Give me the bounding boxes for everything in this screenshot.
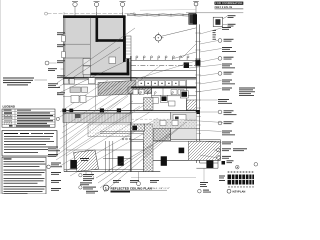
grid bubble 1 <box>72 2 78 16</box>
notes box <box>2 131 57 156</box>
thin lines left dense area <box>63 80 98 110</box>
black column bottom center <box>161 156 167 166</box>
svg-text:REFLECTED CEILING PLAN: REFLECTED CEILING PLAN <box>111 186 153 190</box>
crosshatch room mid <box>153 128 171 141</box>
small cabinets in mid rooms <box>133 90 184 95</box>
stipple ceiling region <box>88 124 131 137</box>
left label cluster y76 <box>57 75 65 78</box>
main horizontal wall below block <box>63 77 196 78</box>
circle right edge <box>254 163 258 167</box>
right wall double line <box>196 24 199 163</box>
r-label y130 <box>222 131 235 136</box>
notes paragraph 1 <box>4 161 46 167</box>
circle marker left lower <box>47 165 51 169</box>
black columns row <box>62 109 66 113</box>
r-label y141 <box>222 142 233 145</box>
upper-left block room fill <box>63 16 123 78</box>
door black box 1 <box>160 95 168 102</box>
r-label y72 circle <box>218 72 233 76</box>
svg-text:1: 1 <box>105 186 107 190</box>
right edge lower lines <box>131 160 218 177</box>
title block top-right <box>186 2 243 13</box>
r-label y80 <box>222 80 235 85</box>
circle right of legend <box>56 117 59 120</box>
r-label y99 <box>218 99 232 104</box>
legend table <box>2 109 55 127</box>
white box inside gray room <box>173 115 186 125</box>
glazing wave line top <box>127 10 196 17</box>
r-label y64 <box>222 64 235 69</box>
sheet border left edge <box>0 0 2 194</box>
black column bottom-mid <box>118 156 124 166</box>
left lower label cluster y180 <box>51 180 61 183</box>
keyplan black strip <box>228 175 255 185</box>
r-label y148 circle <box>217 148 247 152</box>
label cluster above keyplan <box>227 160 234 163</box>
dense hatch band right of core <box>128 87 152 94</box>
upper crosshatch block <box>144 98 154 111</box>
north circle above keyplan <box>236 165 240 169</box>
notes heading <box>4 158 12 159</box>
lower room bottom wall <box>91 73 130 76</box>
black square near keyplan top <box>222 161 226 165</box>
small white boxes mid-left <box>71 96 79 103</box>
dark bulkhead band <box>131 86 196 88</box>
dash line through rooms <box>131 118 196 120</box>
top dimension line <box>45 12 137 15</box>
r-label y39 circle <box>218 39 233 43</box>
crosshatch band elevator core <box>98 81 136 96</box>
bottom center label stack <box>80 174 98 193</box>
black column mid room <box>132 126 137 131</box>
title underline bar <box>111 191 131 193</box>
black box on right wall mid <box>195 60 200 66</box>
grid bubble 2 <box>94 2 100 16</box>
right wall upper <box>123 16 126 62</box>
svg-text:LEGEND: LEGEND <box>3 105 16 109</box>
small room details mid band <box>131 88 175 106</box>
svg-text:ONLY 2 ATL 05: ONLY 2 ATL 05 <box>215 6 233 9</box>
r-label y156 circle <box>217 156 231 160</box>
dim text stack right of wall <box>213 30 217 40</box>
window box on left wall <box>62 36 65 42</box>
leaders from left labels to plan <box>61 34 66 77</box>
window box on left wall 2 <box>62 52 65 58</box>
r-label y27 <box>222 27 231 30</box>
small boxes row upper left area <box>63 79 87 93</box>
left lower label cluster y163 <box>51 163 62 168</box>
r-label y57 circle <box>218 57 233 61</box>
vertical crosshatch band center <box>144 124 154 172</box>
left wall <box>63 16 65 78</box>
hatch block at wall corner <box>187 100 197 110</box>
lower room right wall <box>127 44 130 75</box>
notes outer box <box>2 157 46 194</box>
circle marker below plan <box>137 182 141 186</box>
r-label big cluster y88 right <box>239 88 255 97</box>
notes paragraph 2 <box>4 170 46 176</box>
room gray fill right-lower <box>171 113 197 140</box>
left lower label cluster y154 <box>48 154 58 157</box>
black box in corridor <box>184 62 189 68</box>
svg-text:SCALE : 1/8" = 1'-0": SCALE : 1/8" = 1'-0" <box>150 187 170 190</box>
black column right edge <box>206 161 213 168</box>
label cluster below plan right <box>200 182 208 187</box>
room lines mid right <box>131 80 196 111</box>
inner horizontal wall <box>96 39 126 42</box>
black column lower right room <box>179 148 185 154</box>
big hatch bottom right <box>188 141 220 160</box>
leader lines across upper-left block <box>57 28 135 94</box>
left label cluster y93 <box>57 92 65 95</box>
keyplan title <box>227 189 231 193</box>
r-label y110 circle <box>218 110 236 115</box>
left lower label cluster y147 <box>48 147 60 152</box>
grid bubble 3 <box>120 2 126 16</box>
stair ladder box <box>126 36 131 59</box>
inner vertical wall <box>96 16 99 42</box>
left lower label cluster y188 <box>51 188 61 191</box>
top wall <box>63 15 126 18</box>
column bubble with crosshair <box>153 28 196 59</box>
right wall ticks <box>195 33 201 133</box>
left label cluster y68 <box>48 68 57 71</box>
keyplan top tick row <box>228 171 253 172</box>
left label cluster y45 <box>57 44 65 47</box>
grid bubble 4 <box>193 1 199 13</box>
corridor left wall <box>130 56 132 172</box>
thin line below wall <box>63 79 196 81</box>
closet boxes <box>83 59 91 66</box>
fan leader lines lower-left <box>56 80 160 176</box>
left boundary lower plan <box>63 78 65 172</box>
double wall mid <box>63 109 200 112</box>
left label cluster y33 <box>57 32 65 35</box>
r-label y121 circle <box>218 121 233 125</box>
notes paragraph 4 <box>4 186 46 194</box>
hatch quad mail room <box>74 150 99 172</box>
circled marker bottom right of title <box>198 189 202 193</box>
door black box 2 <box>180 91 188 98</box>
gray textured strip right rooms <box>153 119 196 128</box>
r-label y47 <box>222 47 236 52</box>
r-label y88 <box>222 88 232 91</box>
left lower label cluster y172 <box>51 172 61 175</box>
circles at bottom labels <box>79 174 82 177</box>
fixture circles row <box>122 138 131 140</box>
detail box right of wall <box>213 16 227 26</box>
casework boxes row along corridor wall <box>138 81 186 86</box>
left note text block <box>3 78 47 86</box>
room lines above bottom <box>66 131 144 150</box>
corridor lines <box>131 60 196 70</box>
gray corridor strip <box>63 113 131 122</box>
sprinkler hooks row <box>136 56 189 60</box>
svg-text:KEYPLAN: KEYPLAN <box>233 191 246 194</box>
corridor leader diagonals <box>135 60 199 84</box>
keyplan left label <box>219 176 225 182</box>
left label cluster y84 <box>48 83 60 88</box>
typ labels near detail box <box>228 15 236 26</box>
left label circle y63 <box>45 60 65 65</box>
black box on right wall lower <box>196 110 200 114</box>
black column bottom-left <box>70 160 77 169</box>
notes paragraph 3 <box>4 178 45 184</box>
black column on right wall top <box>193 14 197 24</box>
leaders to bottom labels <box>86 122 186 192</box>
keyplan bottom tick row <box>229 186 254 187</box>
room divider lines lower <box>64 112 220 171</box>
closet boxes 2 <box>83 66 91 75</box>
dark end box of glazing <box>189 13 196 24</box>
drawing title circle <box>103 185 109 191</box>
room divider thin lines <box>63 18 136 78</box>
small box in lower room <box>109 57 116 64</box>
crosshatch block left of band <box>131 124 145 131</box>
leaders from right wall to right labels <box>184 28 223 158</box>
sprinkler hooks row 2 <box>140 92 174 95</box>
micro labels above title <box>113 180 159 183</box>
svg-text:FOR COORDINATION: FOR COORDINATION <box>215 2 242 5</box>
